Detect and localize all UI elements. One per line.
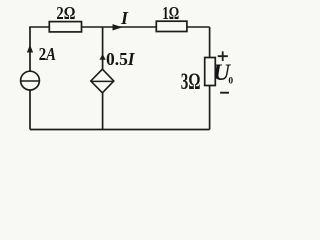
- svg-text:I: I: [120, 8, 129, 28]
- svg-text:3Ω: 3Ω: [181, 69, 201, 95]
- svg-text:2Ω: 2Ω: [56, 3, 75, 23]
- resistor R2 1Ω body: [156, 21, 187, 31]
- wire bottom: [30, 129, 210, 131]
- wire right vertical upper: [209, 27, 211, 58]
- wire middle vertical upper: [102, 27, 104, 69]
- svg-text:1Ω: 1Ω: [162, 3, 179, 23]
- wire left vertical upper: [29, 27, 31, 71]
- dependent source diamond: [91, 69, 114, 93]
- current arrow 0.5I on middle wire: [100, 54, 106, 60]
- current arrow I on top wire: [113, 24, 123, 30]
- resistor R3 3Ω body: [205, 58, 216, 86]
- wire right vertical lower: [209, 86, 211, 130]
- wire top-left segment: [29, 26, 49, 28]
- wire left vertical lower: [29, 90, 31, 130]
- current source I1 bar: [21, 80, 40, 82]
- current source I1 circle: [21, 71, 40, 90]
- dependent source bar: [91, 80, 114, 82]
- wire top-right segment: [187, 26, 210, 28]
- svg-text:0.5I: 0.5I: [106, 49, 136, 69]
- svg-text:0: 0: [228, 77, 233, 87]
- wire top-middle segment: [82, 26, 157, 28]
- current arrow 2A on left wire: [27, 45, 33, 53]
- svg-text:2A: 2A: [39, 44, 56, 64]
- wire middle vertical lower: [102, 93, 104, 130]
- label plus: [218, 51, 228, 61]
- label minus: [220, 92, 229, 94]
- resistor R1 2Ω body: [49, 22, 81, 32]
